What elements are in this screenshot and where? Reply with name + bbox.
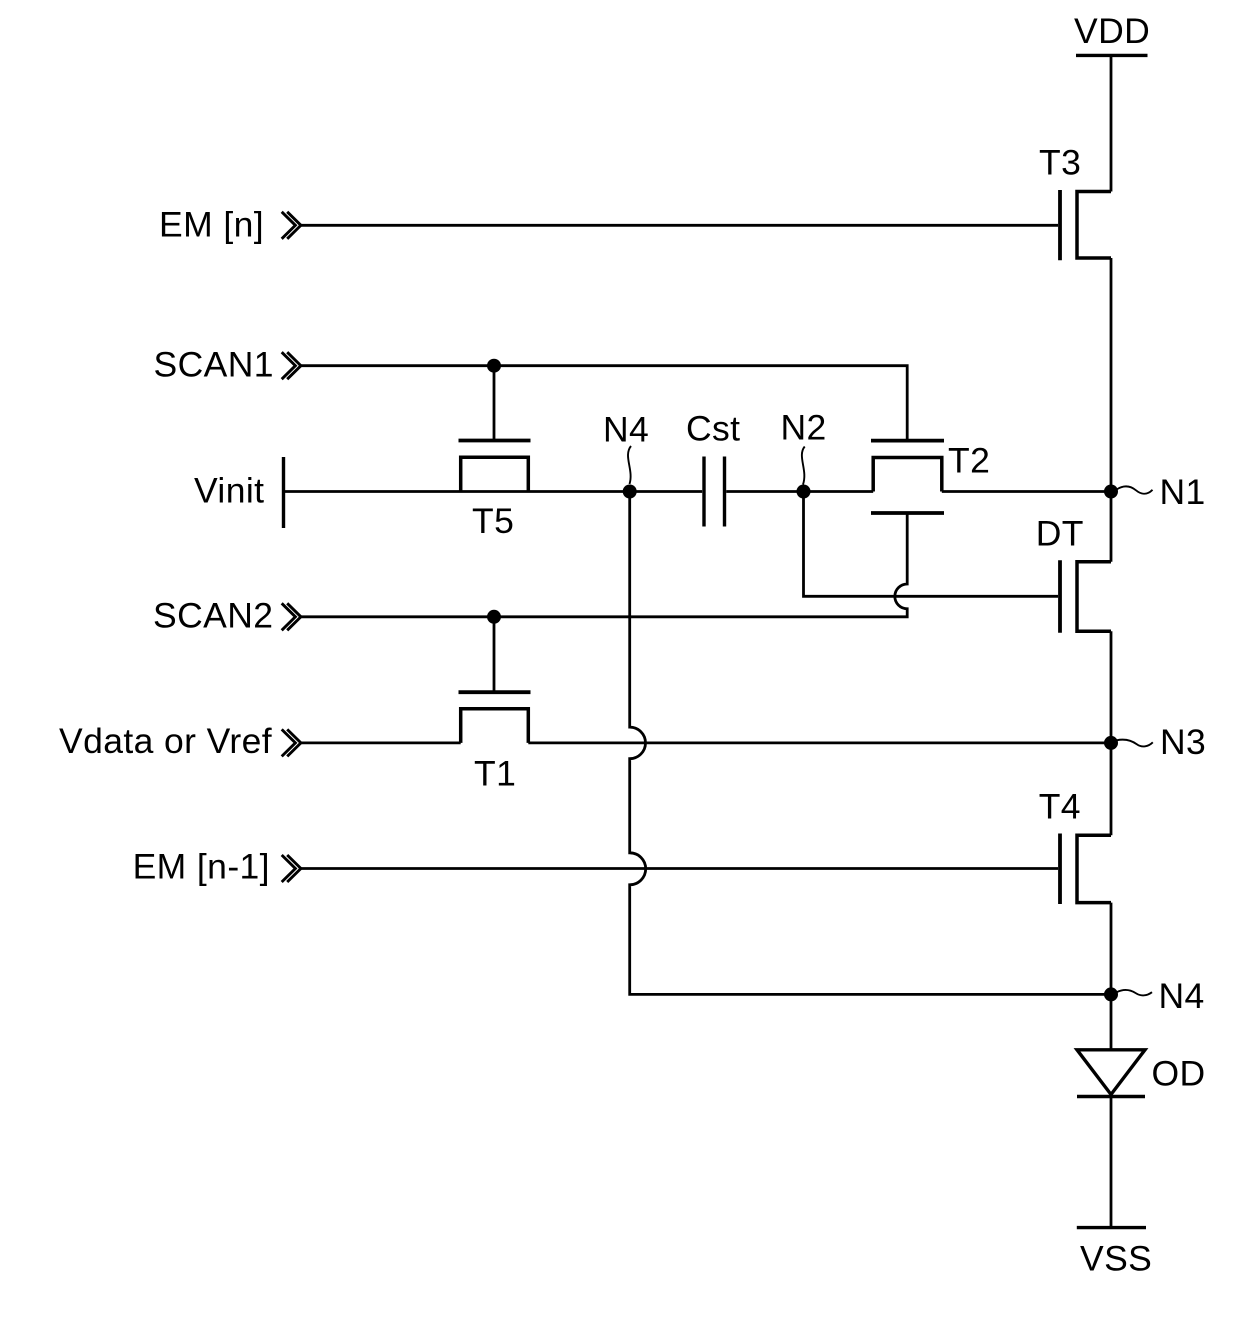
svg-text:T4: T4: [1039, 787, 1081, 827]
svg-text:T1: T1: [474, 754, 516, 794]
svg-text:VSS: VSS: [1080, 1239, 1152, 1279]
svg-text:T3: T3: [1039, 143, 1081, 183]
svg-text:SCAN1: SCAN1: [154, 344, 274, 384]
svg-text:OD: OD: [1152, 1054, 1206, 1094]
svg-text:DT: DT: [1036, 513, 1084, 553]
svg-text:N1: N1: [1160, 472, 1206, 512]
svg-text:N4: N4: [1159, 976, 1205, 1016]
svg-text:T2: T2: [948, 441, 990, 481]
svg-text:Vdata or Vref: Vdata or Vref: [59, 721, 272, 761]
svg-text:VDD: VDD: [1074, 11, 1150, 51]
svg-text:SCAN2: SCAN2: [153, 596, 273, 636]
svg-text:Vinit: Vinit: [194, 471, 264, 511]
svg-text:N2: N2: [781, 407, 827, 447]
svg-text:N4: N4: [603, 409, 649, 449]
svg-text:T5: T5: [472, 501, 514, 541]
svg-text:Cst: Cst: [686, 408, 740, 448]
svg-text:N3: N3: [1160, 722, 1206, 762]
svg-text:EM [n]: EM [n]: [159, 205, 264, 245]
svg-text:EM [n-1]: EM [n-1]: [133, 846, 270, 886]
